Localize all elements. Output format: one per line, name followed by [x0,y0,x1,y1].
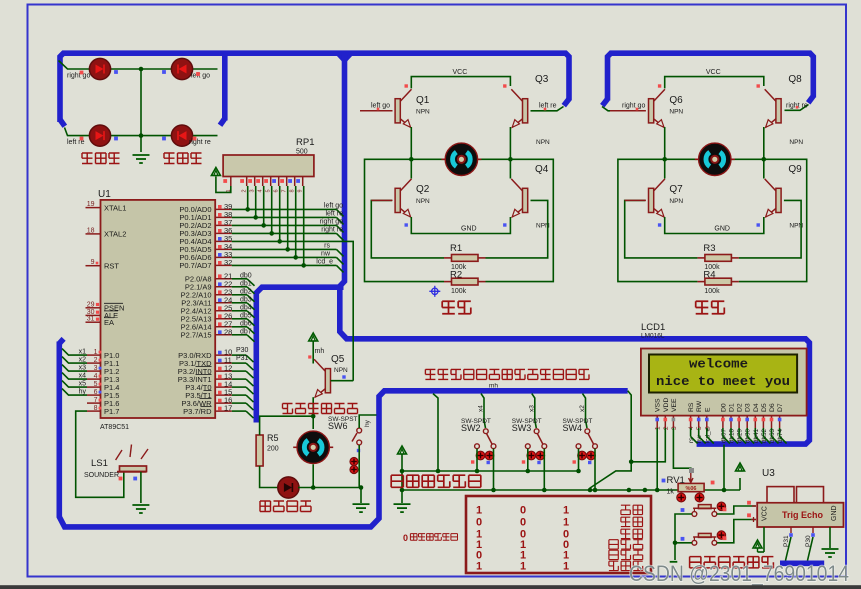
wire net x3 from bus to P1.2 [62,365,87,372]
U1 pin 2 P1.1 stub [87,362,101,364]
U1 pin 22 stub [215,286,232,288]
svg-text:SW2: SW2 [461,423,481,433]
LCD pin RS wire+bus entry [690,428,692,437]
resistor R4 100k [697,281,705,283]
wire arrow to ground [401,454,403,503]
pin 3 square [99,367,102,370]
svg-text:XTAL1: XTAL1 [104,203,126,212]
wire SW6 top to bus [359,415,376,428]
U1 pin 19 XTAL1 stub [86,207,101,209]
SW2 squares [471,460,474,463]
svg-text:18: 18 [87,227,95,234]
U1 pin 4 P1.3 stub [87,378,101,380]
svg-text:19: 19 [87,201,95,208]
svg-text:NPN: NPN [789,139,803,146]
resistor R3 100k [697,257,705,259]
wire P3.0 to bus [232,354,246,356]
U1 pin 11 stub [215,362,232,364]
LCD pin E wire+bus entry [706,428,708,437]
wire GND rail [665,217,764,234]
svg-text:left re: left re [325,211,343,218]
wire net db1 [232,286,247,288]
LED right go (D right) [89,58,110,79]
RV1 wiper arrow [689,473,693,483]
U1 pin 18 XTAL2 stub [86,233,101,235]
svg-text:1: 1 [563,517,569,529]
svg-text:VSS: VSS [655,398,662,412]
wire net hy from bus to P1.5 [62,389,87,396]
ground for LED block [133,154,150,156]
RV1 actuators [677,493,686,502]
RP1 pin 5 square [264,179,268,183]
svg-text:100k: 100k [704,288,720,295]
bus flare left end near LED left re wire [60,120,65,127]
SW6 actuators [350,458,358,466]
power arrow IR [398,446,407,454]
pin 25 square [218,306,222,310]
SW6 squares [357,449,360,452]
wire bus1 end to Q3 base left re [531,107,564,111]
svg-text:GND: GND [831,505,838,521]
wire motor-left node stub [411,158,444,160]
pin 7 square [99,399,102,402]
U1 pin 26 stub [215,318,232,320]
ground for sounder [132,504,149,506]
pin 28 square [218,330,222,334]
sounder rays [116,450,122,460]
VCC rail squares [658,84,661,87]
wire VCC rail Q1-Q3 [411,77,510,89]
junction RP1 pin9/P0.7 [301,263,306,268]
junction SW3 on wire A [526,469,531,474]
wire Q7 collector to motor-left node [664,159,666,178]
junction node top LED row [139,67,144,72]
svg-text:Q5: Q5 [331,354,345,365]
wire net x4 from bus to P1.3 [62,373,87,380]
wire RP1 pin 3 down to P0.1 [255,186,257,217]
pin 29-31 state squares [96,303,99,306]
wire A sensor common upper [402,470,579,472]
bus loop top tip flare [59,339,63,344]
RV1 red square [711,481,715,485]
wire Q4 collector to motor-right node [509,159,511,178]
U3 VCC pin wire + power arrow [763,527,765,552]
LCD pin D6 square [770,418,774,422]
junction motor-right [508,157,513,162]
U1 pin 21 stub [215,278,232,280]
LCD pin VDD stub [664,416,666,428]
svg-text:welcome: welcome [689,358,748,372]
button2 actuator [717,531,725,539]
pin 13 square [218,375,222,379]
svg-text:R4: R4 [703,270,715,281]
power terminal VCC arrow for RP1 [211,168,220,176]
svg-text:D6: D6 [769,403,776,412]
pin 5 square [99,383,102,386]
pin 1 square [99,351,102,354]
wire motor2 bottom [312,464,314,487]
RP1 pin 4 square [256,179,260,183]
wire P3.7 to bus [232,410,246,412]
svg-text:AT89C51: AT89C51 [100,424,129,431]
LCD pin D7 square [778,418,782,422]
svg-text:Q3: Q3 [535,74,549,85]
wire Q9 collector to motor-right node [763,159,765,178]
svg-text:R3: R3 [703,243,715,254]
svg-text:P1.7: P1.7 [104,407,119,416]
wire LCD VSS down to RV1 rail [656,428,658,490]
svg-text:D0: D0 [720,403,727,412]
svg-text:x4: x4 [478,405,485,412]
svg-text:Q6: Q6 [669,95,683,106]
LCD pin D1 stub [730,416,732,428]
svg-text:LS1: LS1 [91,458,108,469]
label bizhang zhishi (obstacle indicator) [260,501,271,512]
LCD pin D5 wire+bus entry [762,428,764,437]
ground for SW6 node [353,503,370,505]
ground U3 [822,548,839,550]
LED left go (D left) [171,58,192,79]
transistor Q5 NPN [314,359,330,397]
svg-text:NPN: NPN [669,198,683,205]
buttons common tick [670,561,678,563]
svg-text:RS: RS [688,402,695,412]
ground IR sim [394,503,411,505]
svg-text:db4: db4 [240,305,252,312]
svg-text:5: 5 [266,189,272,192]
pin 12 square [218,367,222,371]
LCD pin VSS stub [656,416,658,428]
svg-text:NPN: NPN [669,109,683,116]
wire P3.5 to bus [232,394,246,396]
wire P0.4 mh to Q5 base (long) [232,241,353,380]
svg-text:5: 5 [696,426,703,430]
base wire Q7 [625,199,646,201]
U1 pin 17 stub [215,410,232,412]
svg-text:Trig Echo: Trig Echo [782,510,824,520]
svg-text:D7: D7 [777,403,784,412]
LCD pin D7 stub [779,416,781,428]
svg-text:500: 500 [296,149,308,156]
svg-text:hy: hy [364,419,371,427]
SW4 actuators [578,451,587,460]
RP1 pin1 wire to power arrow [216,177,231,193]
svg-text:Q1: Q1 [416,95,430,106]
LCD pin VEE stub [672,416,674,428]
wire RP1 pin 6 down to P0.4 [279,186,281,241]
switch SW6 SPST [357,428,362,433]
transistor Q8 NPN top-right [765,89,781,127]
U1 pin 32 stub [215,264,232,266]
svg-text:E: E [704,407,711,412]
VCC rail squares [405,84,408,87]
U1 pin 34 stub [215,248,232,250]
U1 pin 16 stub [215,402,232,404]
svg-text:3: 3 [250,189,256,192]
U1 pin 7 P1.6 stub [87,402,101,404]
LCD pin D6 stub [771,416,773,428]
wire node to ground [360,488,362,504]
svg-text:U1: U1 [98,189,111,200]
label zhuandong fuzhu jigou (rotation assist) [283,404,293,414]
base wire Q2 [371,199,392,201]
junction SW2 on wire B [491,488,496,493]
wire bottom LED row [65,128,218,136]
junction motor2 bottom [311,485,316,490]
svg-text:U3: U3 [762,468,775,479]
svg-text:1: 1 [520,561,526,573]
LCD pin D2 wire+bus entry [738,428,740,437]
svg-text:db7: db7 [240,329,252,336]
svg-text:x1: x1 [79,349,87,356]
wire net db5 [232,318,247,320]
svg-text:1: 1 [476,505,482,517]
wire P0.0 left go [232,208,337,210]
wire U1 pin8 P1.7 to sounder [76,411,124,497]
wire Q8 emitter down to motor-right node [763,127,765,159]
pin 38 square [218,213,222,217]
svg-text:XTAL2: XTAL2 [104,230,126,239]
junction buttons left [673,541,678,546]
svg-text:right go: right go [622,103,645,110]
svg-text:EA: EA [104,318,114,327]
wire R1 right to lower-right base [486,200,548,258]
bus entry db5 [247,319,255,326]
LCD pin D6 wire+bus entry [771,428,773,437]
wire R5 bottom to LED node [260,466,278,488]
label you zhuan wan (right turn) [164,153,175,164]
wire RP1 pin 2 down to P0.0 [247,186,249,209]
pin state squares LED1 [80,71,84,75]
U1 pin 8 P1.7 stub [87,410,101,412]
svg-text:db5: db5 [240,313,252,320]
sounder pin squares [119,477,123,481]
junction Q5/R5/motor [311,414,316,419]
wire SW2 right throw down [493,449,495,490]
wire net db7 [232,334,247,336]
wire Q1 emitter down to motor-left node [410,127,412,159]
svg-text:6: 6 [274,189,280,192]
resistor R2 100k [444,281,452,283]
svg-text:VCC: VCC [453,69,468,76]
svg-text:8: 8 [290,189,296,192]
bus: top-right rail for right wheel nets (bus2) [608,53,814,100]
RP1 pin 2 stub [246,177,248,187]
svg-text:db2: db2 [240,289,252,296]
wire net db4 [232,310,247,312]
wire Q3 emitter down to motor-right node [509,127,511,159]
svg-text:R5: R5 [267,433,279,443]
LCD pin D1 square [729,418,733,422]
wire P0.5 rs [232,248,337,250]
transistor Q1 NPN top-left [395,89,411,127]
svg-text:3: 3 [94,365,98,372]
base wire Q6 right go [610,110,646,112]
LCD pin D0 square [721,418,725,422]
wire RP1 pin 4 down to P0.2 [263,186,265,225]
pin 33 square [218,253,222,257]
resistor R5 vertical [256,435,263,466]
wire motor-left node stub [665,158,698,160]
transistor Q2 NPN bottom-left [395,179,411,217]
svg-text:x3: x3 [79,365,87,372]
pin 24 square [218,298,222,302]
svg-text:db6: db6 [240,321,252,328]
label zuo zhuan wan (left turn) [82,153,93,164]
svg-text:right go: right go [320,219,343,226]
U3 wire square2 [747,513,751,517]
pin 32 square [218,261,222,265]
junction SW2 on wire A [475,469,480,474]
wire sounder right pin to ground [140,472,142,503]
wire button1 left [675,514,692,543]
wire SW3 left throw down [527,449,529,471]
svg-text:right go: right go [67,73,90,80]
pin 21 square [218,274,222,278]
transistor Q3 NPN top-right [511,89,527,127]
svg-text:LCD1: LCD1 [641,322,665,333]
U1 AT89C51 chip body [101,200,216,418]
pin 17 square [218,407,222,411]
bus1 right end flare to left re wire [564,99,569,106]
svg-text:db0: db0 [240,273,252,280]
svg-text:1k: 1k [667,489,675,496]
U1 pin 23 stub [215,294,232,296]
transistor Q7 NPN bottom-left [649,179,665,217]
svg-text:9: 9 [91,259,95,266]
U1 pin 5 P1.4 stub [87,386,101,388]
switch SW2 SW-SPDT [483,429,488,434]
wire SW2 left throw down [476,449,478,471]
svg-text:VCC: VCC [762,506,769,521]
SW3 actuators [527,451,536,460]
wire buttons left down [674,543,676,560]
bus branch: left toward db bus vertical [256,287,343,422]
junction RP1 pin4/P0.2 [261,223,266,228]
push button button1 cap [698,505,711,509]
wire RP1 pin 8 down to P0.6 [295,186,297,257]
wire P0.3 right re [232,232,337,234]
junction motor-left [409,157,414,162]
wire bus drop to SW2 common [481,394,486,428]
svg-text:1: 1 [563,561,569,573]
U1 pin 37 stub [215,224,232,226]
svg-text:x5: x5 [79,381,87,388]
RP1 pin 4 stub [262,177,264,187]
wire R4 left to motor-left [618,159,698,281]
svg-text:D2: D2 [737,403,744,412]
bus entry db6 [247,327,255,334]
svg-text:nw: nw [321,251,331,258]
svg-text:CSDN @2301_76901014: CSDN @2301_76901014 [629,561,849,586]
RP1 pin 1 stub [230,177,232,187]
sounder LS1 body [120,466,147,472]
pin state squares LED2 [162,70,166,74]
wire RP1 pin 5 down to P0.3 [271,186,273,233]
svg-text:NPN: NPN [416,109,430,116]
wire net db6 [232,326,247,328]
Q5 base wire from P0.4 vertical [331,380,354,382]
U1 pin 9 RST stub [86,265,101,267]
junction wireB x628 [627,488,632,493]
wire P3.6 to bus [232,402,246,404]
LCD pin D1 wire+bus entry [730,428,732,437]
LCD pin D3 square [745,418,749,422]
U1 pin 14 stub [215,386,232,388]
LCD pin E square [705,418,709,422]
svg-text:GND: GND [714,226,730,233]
junction motor-right [762,157,767,162]
svg-text:rs: rs [324,243,330,250]
LCD pin RS stub [690,416,692,428]
wire net db0 [232,278,247,280]
junction wireB x645 [643,488,648,493]
button2 terminals [692,540,697,545]
wire P0.2 right go [232,224,337,226]
junction A left end [400,469,405,474]
junction RV1 right [722,488,727,493]
svg-text:17: 17 [224,404,232,413]
button1 squares [681,508,685,512]
svg-text:0: 0 [520,517,526,529]
wire LCD VEE to RV1 wiper [673,428,690,473]
GND rail squares [658,223,661,226]
svg-text:1: 1 [94,349,98,356]
wire mh terminal to Q5 collector [312,341,314,364]
wire bus2 right end to Q8 base [785,105,809,111]
svg-text:D5: D5 [761,403,768,412]
RP1 pin 2 square [240,179,244,183]
svg-text:2: 2 [94,357,98,364]
svg-text:31: 31 [87,316,95,323]
LCD pin D5 square [762,418,766,422]
wire P3.4 to bus [232,386,246,388]
svg-text:3: 3 [671,426,678,430]
pin 4 square [99,375,102,378]
wire rail to RV1 [739,478,741,490]
wire SW3 right throw down [543,449,545,490]
junction RP1 pin3/P0.1 [253,215,258,220]
svg-text:P31: P31 [236,355,249,362]
potentiometer RV1 body [678,483,704,491]
RV1 blue square [662,479,666,483]
button2 squares [681,537,685,541]
LCD pin D4 square [754,418,758,422]
wire GND rail [411,217,510,234]
svg-text:left re: left re [539,103,557,110]
svg-text:LM016L: LM016L [641,333,665,340]
svg-text:4: 4 [688,426,695,430]
U1 pin 6 P1.5 stub [87,394,101,396]
svg-text:2: 2 [663,426,670,430]
svg-text:NPN: NPN [416,198,430,205]
svg-text:GND: GND [461,226,477,233]
LCD pin D5 stub [762,416,764,428]
label hongwai chuangan moni (IR sensor sim) [391,475,403,487]
RP1 pin 9 stub [302,177,304,187]
svg-text:8: 8 [94,405,98,412]
resistor R1 100k [444,257,452,259]
pin 27 square [218,322,222,326]
wire P3.3 to bus [232,378,246,380]
junction SW4 on wire B [593,488,598,493]
pin 35 square [218,237,222,241]
junction B left end [400,488,405,493]
svg-text:RP1: RP1 [296,137,314,148]
junction RP1 pin8/P0.6 [293,255,298,260]
LCD pin RW wire+bus entry [698,428,700,437]
svg-text:left go: left go [324,203,343,210]
